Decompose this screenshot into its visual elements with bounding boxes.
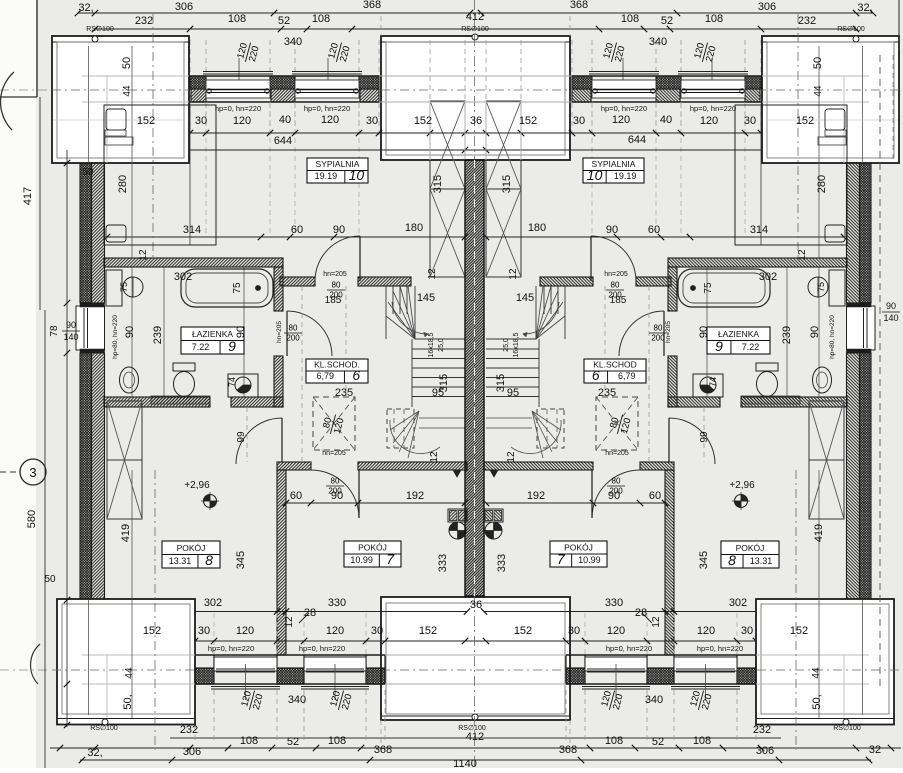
svg-text:60: 60	[291, 224, 303, 236]
svg-text:280: 280	[816, 175, 828, 193]
svg-text:50: 50	[121, 57, 133, 69]
svg-text:30: 30	[573, 115, 585, 127]
svg-text:180: 180	[528, 222, 546, 234]
svg-text:hp=0, hn=220: hp=0, hn=220	[299, 644, 345, 653]
svg-text:239: 239	[781, 326, 793, 344]
svg-text:368: 368	[559, 744, 577, 756]
svg-text:80: 80	[612, 477, 621, 486]
svg-text:32: 32	[869, 744, 881, 756]
svg-text:60: 60	[648, 224, 660, 236]
svg-text:6: 6	[592, 367, 600, 383]
svg-text:80: 80	[332, 281, 341, 290]
svg-text:RS∅100: RS∅100	[837, 26, 865, 33]
svg-text:235: 235	[598, 387, 616, 399]
svg-text:6,79: 6,79	[618, 371, 636, 381]
svg-text:108: 108	[228, 13, 246, 25]
svg-text:44: 44	[124, 667, 135, 679]
svg-text:280: 280	[117, 175, 129, 193]
svg-text:12: 12	[651, 616, 662, 628]
svg-text:12: 12	[797, 249, 808, 261]
svg-text:36: 36	[470, 115, 482, 127]
svg-text:152: 152	[143, 625, 161, 637]
svg-text:314: 314	[183, 224, 201, 236]
svg-text:90: 90	[124, 326, 136, 338]
svg-text:12: 12	[284, 616, 295, 628]
svg-text:140: 140	[63, 332, 78, 342]
svg-text:10: 10	[587, 167, 603, 183]
svg-text:hn=205: hn=205	[276, 321, 283, 343]
svg-text:368: 368	[374, 744, 392, 756]
svg-text:50: 50	[44, 574, 56, 585]
svg-text:200: 200	[609, 487, 623, 496]
svg-text:30: 30	[195, 115, 207, 127]
svg-text:32,: 32,	[87, 747, 102, 759]
svg-text:hp=0, hn=220: hp=0, hn=220	[208, 644, 254, 653]
svg-text:152: 152	[419, 625, 437, 637]
svg-text:40: 40	[279, 114, 291, 126]
svg-text:RS∅100: RS∅100	[461, 26, 489, 33]
svg-text:90: 90	[886, 301, 896, 311]
svg-text:75: 75	[703, 282, 714, 294]
svg-text:90: 90	[698, 326, 710, 338]
svg-text:314: 314	[750, 224, 768, 236]
svg-text:340: 340	[645, 694, 663, 706]
svg-text:hp=0, hn=220: hp=0, hn=220	[215, 104, 261, 113]
svg-text:36: 36	[470, 599, 482, 611]
svg-text:185: 185	[325, 295, 342, 306]
svg-text:hp=0, hn=220: hp=0, hn=220	[606, 644, 652, 653]
svg-text:hn=205: hn=205	[322, 450, 346, 457]
svg-text:POKÓJ: POKÓJ	[736, 543, 765, 553]
svg-text:25,0: 25,0	[438, 338, 445, 352]
svg-text:152: 152	[790, 625, 808, 637]
svg-text:74: 74	[227, 377, 237, 387]
svg-text:419: 419	[813, 524, 825, 542]
svg-text:13.31: 13.31	[169, 556, 192, 566]
svg-text:13.31: 13.31	[750, 556, 773, 566]
svg-text:90: 90	[66, 320, 76, 330]
svg-text:152: 152	[414, 115, 432, 127]
svg-text:hn=205: hn=205	[323, 271, 347, 278]
svg-text:44: 44	[813, 85, 824, 97]
svg-text:POKÓJ: POKÓJ	[564, 543, 593, 553]
svg-text:80: 80	[289, 324, 298, 333]
svg-text:hp=0, hn=220: hp=0, hn=220	[697, 644, 743, 653]
svg-text:302: 302	[759, 271, 777, 283]
svg-text:7.22: 7.22	[192, 342, 210, 352]
svg-text:345: 345	[698, 551, 710, 569]
svg-text:108: 108	[240, 735, 258, 747]
svg-text:120: 120	[233, 115, 251, 127]
svg-text:192: 192	[527, 490, 545, 502]
svg-text:ŁAZIENKA: ŁAZIENKA	[718, 329, 759, 339]
svg-text:120: 120	[236, 625, 254, 637]
svg-text:306: 306	[756, 745, 774, 757]
svg-text:+2,96: +2,96	[729, 480, 755, 491]
svg-text:8: 8	[728, 552, 736, 568]
svg-text:30: 30	[366, 115, 378, 127]
svg-text:60: 60	[649, 490, 661, 502]
svg-text:7: 7	[386, 551, 395, 567]
svg-text:10.99: 10.99	[350, 555, 373, 565]
svg-text:200: 200	[286, 334, 300, 343]
svg-text:52: 52	[287, 736, 299, 748]
svg-text:44: 44	[122, 85, 133, 97]
svg-text:232: 232	[798, 15, 816, 27]
svg-text:80: 80	[331, 477, 340, 486]
svg-text:306: 306	[175, 1, 193, 13]
svg-text:368: 368	[570, 0, 588, 11]
svg-text:644: 644	[274, 135, 292, 147]
svg-text:140: 140	[883, 313, 898, 323]
svg-text:30: 30	[744, 115, 756, 127]
svg-text:340: 340	[649, 36, 667, 48]
svg-text:50,: 50,	[122, 694, 134, 709]
svg-text:99: 99	[236, 431, 247, 443]
svg-text:8: 8	[205, 552, 213, 568]
svg-text:302: 302	[174, 271, 192, 283]
svg-text:12: 12	[138, 249, 149, 261]
svg-text:120: 120	[321, 114, 339, 126]
svg-text:12: 12	[508, 268, 519, 280]
svg-text:12: 12	[429, 451, 440, 463]
svg-text:108: 108	[705, 13, 723, 25]
svg-text:19.19: 19.19	[614, 171, 637, 181]
svg-text:3: 3	[29, 465, 36, 480]
svg-text:hp=0, hn=220: hp=0, hn=220	[690, 104, 736, 113]
svg-text:235: 235	[335, 387, 353, 399]
svg-text:580: 580	[26, 510, 38, 528]
svg-text:32,: 32,	[78, 2, 93, 14]
svg-text:RS∅100: RS∅100	[90, 725, 118, 732]
svg-text:1140: 1140	[453, 758, 477, 768]
svg-text:120: 120	[326, 625, 344, 637]
svg-text:95: 95	[432, 387, 444, 399]
svg-text:90: 90	[606, 224, 618, 236]
svg-text:180: 180	[405, 222, 423, 234]
svg-text:152: 152	[796, 115, 814, 127]
svg-text:80: 80	[611, 281, 620, 290]
svg-text:52: 52	[661, 15, 673, 27]
svg-text:30: 30	[741, 625, 753, 637]
svg-text:+2,96: +2,96	[184, 480, 210, 491]
svg-text:9: 9	[228, 338, 236, 354]
svg-text:RS∅100: RS∅100	[86, 26, 114, 33]
svg-text:232: 232	[753, 724, 771, 736]
svg-text:hp=80, hn=220: hp=80, hn=220	[829, 315, 836, 359]
svg-text:KL.SCHOD: KL.SCHOD	[593, 360, 636, 370]
svg-text:75: 75	[119, 282, 129, 292]
svg-text:644: 644	[628, 134, 646, 146]
svg-text:9: 9	[715, 338, 723, 354]
svg-text:145: 145	[417, 292, 435, 304]
svg-text:75: 75	[816, 282, 826, 292]
svg-text:95: 95	[507, 387, 519, 399]
svg-text:52: 52	[278, 15, 290, 27]
svg-text:108: 108	[312, 13, 330, 25]
svg-text:302: 302	[729, 597, 747, 609]
svg-text:78: 78	[49, 325, 60, 337]
svg-text:52: 52	[652, 736, 664, 748]
svg-text:120: 120	[612, 114, 630, 126]
svg-text:28: 28	[304, 607, 316, 619]
svg-text:44: 44	[811, 667, 822, 679]
svg-text:315: 315	[501, 175, 513, 193]
svg-text:12: 12	[506, 451, 517, 463]
svg-text:99: 99	[699, 431, 710, 443]
svg-text:50: 50	[812, 57, 824, 69]
svg-text:239: 239	[152, 326, 164, 344]
svg-text:417: 417	[22, 187, 34, 205]
svg-text:hp=0, hn=220: hp=0, hn=220	[304, 104, 350, 113]
svg-text:200: 200	[651, 334, 665, 343]
svg-text:185: 185	[610, 295, 627, 306]
svg-text:10: 10	[349, 167, 365, 183]
svg-text:330: 330	[328, 597, 346, 609]
svg-text:306: 306	[183, 746, 201, 758]
svg-text:120: 120	[700, 115, 718, 127]
svg-text:330: 330	[605, 597, 623, 609]
svg-text:12: 12	[427, 268, 438, 280]
svg-text:hn=205: hn=205	[665, 321, 672, 343]
svg-text:hn=205: hn=205	[605, 450, 629, 457]
svg-text:340: 340	[284, 36, 302, 48]
svg-text:232: 232	[180, 724, 198, 736]
svg-text:108: 108	[693, 735, 711, 747]
svg-text:6: 6	[352, 367, 360, 383]
svg-text:315: 315	[432, 175, 444, 193]
svg-text:40: 40	[660, 114, 672, 126]
svg-text:90: 90	[235, 326, 247, 338]
svg-text:108: 108	[621, 13, 639, 25]
svg-text:232: 232	[135, 15, 153, 27]
svg-text:25,0: 25,0	[503, 338, 510, 352]
svg-text:hp=80, hn=220: hp=80, hn=220	[112, 315, 119, 359]
svg-text:315: 315	[495, 374, 507, 392]
svg-text:10.99: 10.99	[578, 555, 601, 565]
svg-text:hp=0, hn=220: hp=0, hn=220	[601, 104, 647, 113]
svg-text:POKÓJ: POKÓJ	[358, 543, 387, 553]
svg-text:120: 120	[697, 625, 715, 637]
svg-text:108: 108	[605, 735, 623, 747]
svg-text:75: 75	[232, 282, 243, 294]
svg-text:7: 7	[557, 551, 566, 567]
svg-text:145: 145	[516, 292, 534, 304]
svg-text:152: 152	[514, 625, 532, 637]
svg-text:90: 90	[333, 224, 345, 236]
svg-text:368: 368	[363, 0, 381, 11]
svg-text:90: 90	[809, 326, 821, 338]
svg-text:192: 192	[406, 490, 424, 502]
svg-text:16x18,5: 16x18,5	[428, 332, 435, 357]
svg-text:108: 108	[328, 735, 346, 747]
svg-text:333: 333	[496, 554, 508, 572]
svg-text:333: 333	[437, 554, 449, 572]
svg-text:80: 80	[654, 324, 663, 333]
svg-text:412: 412	[466, 11, 484, 23]
svg-text:hn=205: hn=205	[604, 271, 628, 278]
svg-text:19.19: 19.19	[315, 171, 338, 181]
svg-text:30: 30	[371, 625, 383, 637]
svg-text:RS∅100: RS∅100	[833, 725, 861, 732]
svg-text:152: 152	[137, 115, 155, 127]
svg-text:152: 152	[519, 115, 537, 127]
svg-text:60: 60	[290, 490, 302, 502]
svg-text:340: 340	[288, 694, 306, 706]
svg-text:30: 30	[198, 625, 210, 637]
svg-text:345: 345	[235, 551, 247, 569]
svg-text:30: 30	[568, 625, 580, 637]
svg-text:412: 412	[466, 731, 484, 743]
svg-text:200: 200	[328, 487, 342, 496]
svg-text:POKÓJ: POKÓJ	[177, 543, 206, 553]
svg-text:7.22: 7.22	[742, 342, 760, 352]
svg-text:28: 28	[635, 607, 647, 619]
svg-text:302: 302	[204, 597, 222, 609]
svg-text:50,: 50,	[811, 694, 823, 709]
svg-text:16x18,5: 16x18,5	[513, 332, 520, 357]
svg-text:74: 74	[708, 377, 718, 387]
svg-text:306: 306	[758, 1, 776, 13]
svg-text:120: 120	[607, 625, 625, 637]
svg-text:6,79: 6,79	[316, 371, 334, 381]
svg-text:50: 50	[82, 167, 94, 178]
svg-text:419: 419	[120, 524, 132, 542]
svg-text:32,: 32,	[857, 2, 872, 14]
